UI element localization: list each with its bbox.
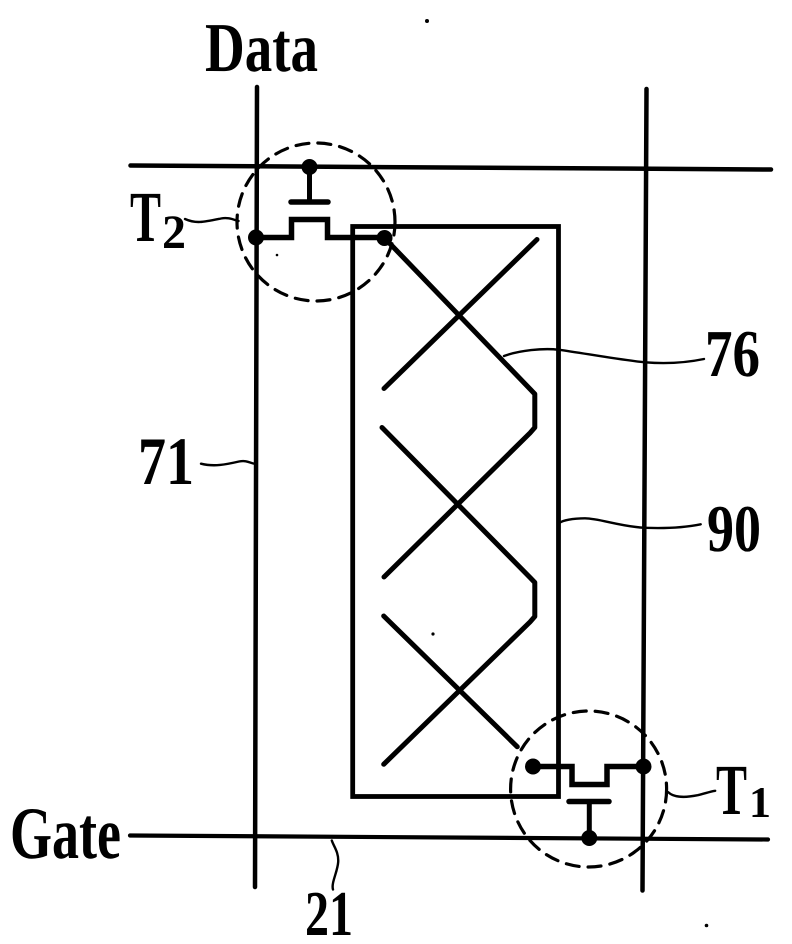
svg-text:1: 1 (749, 778, 771, 827)
leader line for T2 (185, 218, 239, 222)
svg-text:T: T (716, 750, 747, 830)
right data line (vertical wire) (643, 89, 647, 891)
scan speck (431, 632, 434, 635)
transistor T1 dashed circle (511, 711, 667, 867)
transistor T2 dashed circle (237, 143, 395, 301)
transistor T1 gate stem (587, 802, 592, 838)
gate line (horizontal wire, ref 21) (130, 836, 768, 840)
leader line for 90 (560, 518, 701, 528)
top storage line (horizontal wire) (131, 166, 772, 170)
leader line for 71 (201, 461, 255, 465)
svg-text:Gate: Gate (10, 793, 121, 875)
scan speck (705, 924, 709, 928)
svg-text:76: 76 (705, 317, 760, 391)
scan speck (276, 254, 279, 257)
svg-text:Data: Data (205, 10, 318, 87)
svg-text:21: 21 (305, 878, 353, 944)
svg-text:90: 90 (707, 492, 761, 566)
svg-text:2: 2 (162, 206, 186, 259)
zigzag pattern line A (ref 76) (384, 238, 535, 577)
node dot: T1 drain on right data line (636, 759, 652, 775)
pixel electrode rectangle (ref 90) (353, 227, 559, 797)
transistor T2 gate stem (307, 167, 312, 201)
scan speck (425, 19, 429, 23)
transistor T1 gate bar (569, 799, 609, 805)
transistor T2 gate bar (291, 199, 328, 205)
zigzag pattern line B (384, 240, 537, 389)
node dot: T1 gate on gate line (581, 830, 597, 846)
node dot: T2 drain on pixel electrode (377, 230, 393, 246)
transistor T1 source-drain electrode (533, 767, 644, 785)
zigzag pattern line D (384, 616, 518, 747)
leader line for 76 (504, 349, 704, 363)
zigzag pattern line C (382, 428, 535, 765)
data line (vertical wire, ref 71) (255, 87, 257, 887)
svg-text:71: 71 (138, 423, 194, 499)
transistor T2 source-drain electrode (256, 220, 385, 238)
label T2 (130, 177, 186, 259)
leader line for T1 (668, 791, 715, 797)
node dot: T1 source on pixel electrode (525, 759, 541, 775)
label T1 (716, 750, 771, 830)
leader line for 21 (332, 841, 338, 890)
node dot: T2 gate on top line (302, 159, 318, 175)
svg-text:T: T (130, 177, 161, 257)
node dot: T2 source on data line (248, 230, 264, 246)
